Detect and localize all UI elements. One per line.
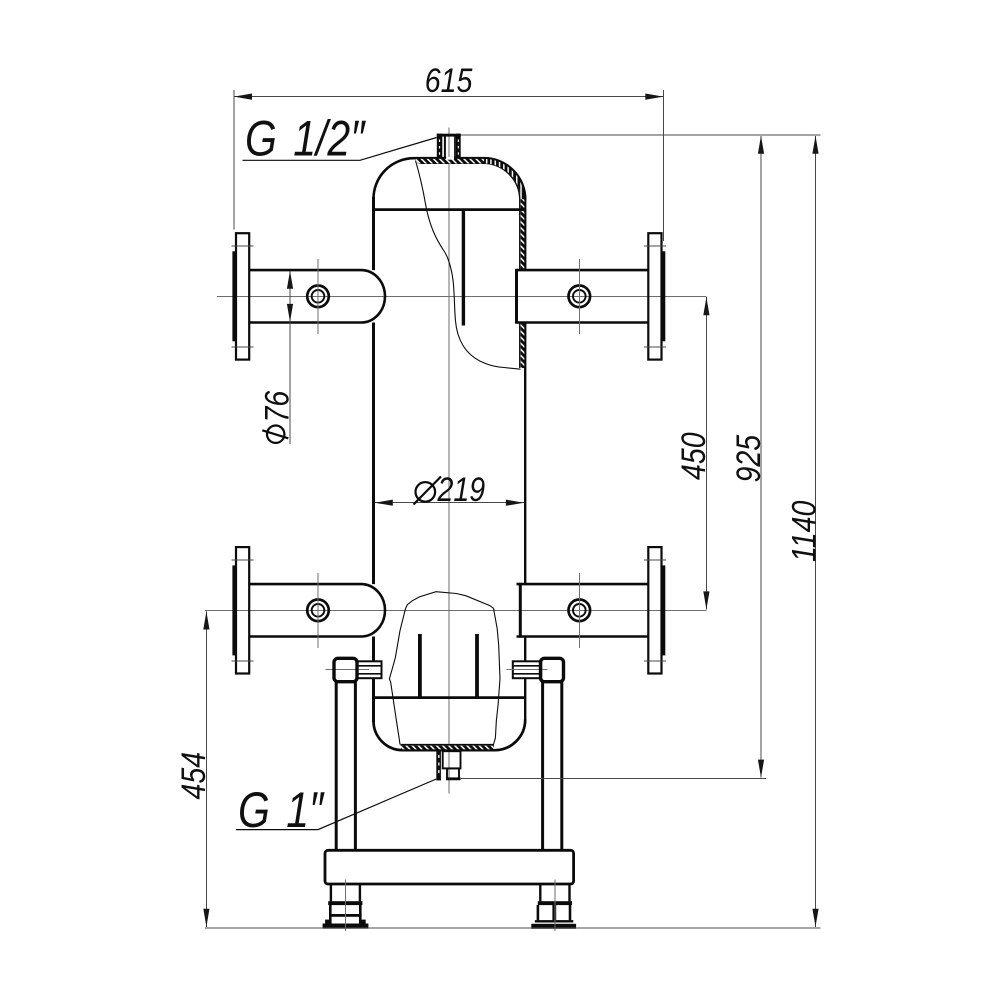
svg-text:G 1″: G 1″ [238, 782, 325, 838]
svg-text:925: 925 [730, 434, 768, 482]
svg-text:76: 76 [258, 390, 296, 422]
svg-text:G 1/2″: G 1/2″ [245, 111, 366, 167]
svg-text:450: 450 [675, 432, 713, 480]
svg-text:615: 615 [425, 62, 473, 100]
svg-text:219: 219 [437, 471, 486, 509]
svg-text:1140: 1140 [785, 500, 823, 562]
svg-text:454: 454 [175, 752, 213, 800]
